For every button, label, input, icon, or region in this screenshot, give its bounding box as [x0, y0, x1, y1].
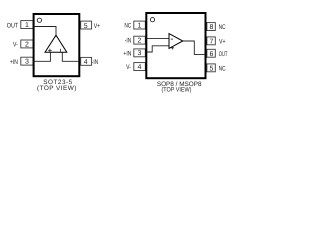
- pin 5 box: [81, 21, 92, 29]
- op-amp A1 triangle (pointing up): [45, 35, 67, 52]
- pin 4 box: [81, 57, 92, 65]
- svg-text:OUT: OUT: [219, 51, 228, 58]
- svg-text:(TOP VIEW): (TOP VIEW): [37, 85, 77, 92]
- svg-text:V-: V-: [13, 42, 18, 49]
- svg-text:(TOP VIEW): (TOP VIEW): [162, 86, 192, 93]
- svg-text:4: 4: [84, 59, 88, 66]
- svg-text:5: 5: [84, 23, 88, 30]
- pin 3 box: [21, 57, 33, 65]
- svg-text:-IN: -IN: [92, 59, 99, 66]
- svg-text:6: 6: [209, 51, 213, 58]
- wire +IN: pin 3 to op-amp non-inverting input: [34, 52, 51, 61]
- wire -IN: op-amp inverting input to pin 4: [62, 52, 79, 61]
- svg-text:2: 2: [25, 41, 29, 48]
- pin 4 box (SOP8): [134, 63, 146, 71]
- svg-text:-IN: -IN: [125, 38, 132, 45]
- svg-text:8: 8: [209, 24, 213, 31]
- pin 1 box: [21, 21, 33, 29]
- op-amp A2 triangle (pointing right): [169, 34, 183, 49]
- svg-text:3: 3: [25, 59, 29, 66]
- wire -IN: pin 2 to op-amp inverting input: [146, 38, 169, 40]
- wire OUT: op-amp output to pin 6: [183, 41, 206, 54]
- svg-text:NC: NC: [219, 24, 226, 31]
- pin 7 box: [207, 37, 215, 45]
- pin 3 box (SOP8): [134, 49, 146, 57]
- pin 6 box: [207, 49, 215, 57]
- wire +IN: pin 3 to op-amp non-inverting input: [146, 46, 169, 52]
- SOP8/MSOP8 package body: [146, 13, 205, 78]
- pin 1 box (SOP8): [134, 21, 146, 29]
- svg-text:V+: V+: [219, 38, 226, 45]
- svg-text:1: 1: [138, 23, 142, 30]
- SOT23-5 package body: [34, 14, 80, 76]
- svg-text:OUT: OUT: [7, 22, 18, 29]
- pin-1 indicator dot: [37, 18, 41, 22]
- pin 5 box (SOP8): [207, 64, 215, 72]
- pin 2 box (SOP8): [134, 36, 146, 44]
- svg-text:4: 4: [138, 64, 142, 71]
- svg-text:+IN: +IN: [123, 51, 131, 58]
- svg-text:NC: NC: [124, 23, 131, 30]
- svg-text:NC: NC: [219, 66, 226, 73]
- svg-text:3: 3: [138, 50, 142, 57]
- svg-text:7: 7: [209, 38, 213, 45]
- wire OUT: pin 1 to op-amp output (apex): [34, 27, 56, 37]
- plus input mark (SOP8): [171, 46, 174, 49]
- svg-text:2: 2: [138, 37, 142, 44]
- pin 8 box: [207, 23, 215, 31]
- svg-text:5: 5: [209, 65, 213, 72]
- minus input mark (rotated tick): [59, 49, 61, 52]
- plus input mark: [48, 49, 52, 53]
- pin-1 indicator dot (SOP8): [150, 18, 154, 22]
- minus input mark (SOP8): [171, 38, 173, 40]
- svg-text:V-: V-: [126, 64, 131, 71]
- pin 2 box: [21, 40, 33, 48]
- svg-text:V+: V+: [94, 23, 101, 30]
- svg-text:+IN: +IN: [10, 59, 18, 66]
- svg-text:1: 1: [25, 22, 29, 29]
